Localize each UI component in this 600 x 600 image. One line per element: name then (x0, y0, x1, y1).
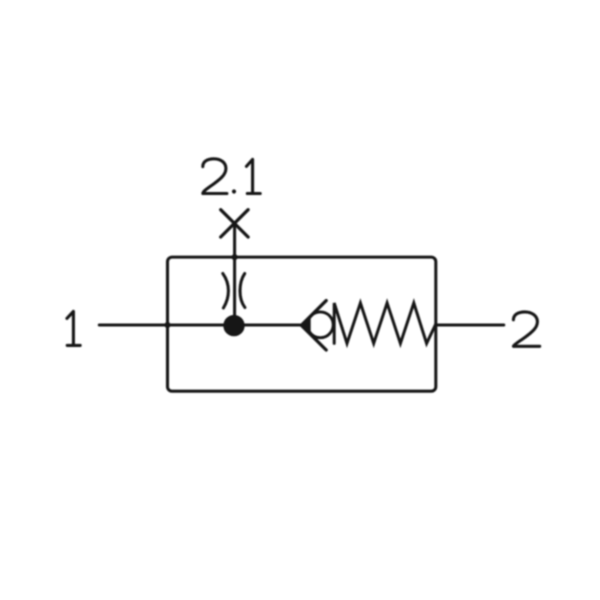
junction: vertical line crossing box top edge (230, 253, 238, 261)
port label 2.1 (203, 159, 260, 194)
check valve ball (307, 312, 333, 338)
port label 1 (67, 311, 80, 345)
valve body envelope box (168, 257, 436, 391)
port label 2 (513, 312, 539, 346)
throttle arc right (240, 274, 245, 308)
wire: port 1 horizontal line (99, 323, 302, 326)
spring (334, 303, 436, 343)
wire: port 2 horizontal line (436, 323, 504, 326)
throttle arc left (223, 274, 229, 309)
junction dot at node (223, 315, 244, 336)
wire: port 2.1 vertical line (233, 223, 236, 325)
check valve seat (301, 301, 326, 350)
plugged port X for port 2.1 (221, 210, 248, 237)
junction: main line crossing box left edge (163, 321, 171, 329)
